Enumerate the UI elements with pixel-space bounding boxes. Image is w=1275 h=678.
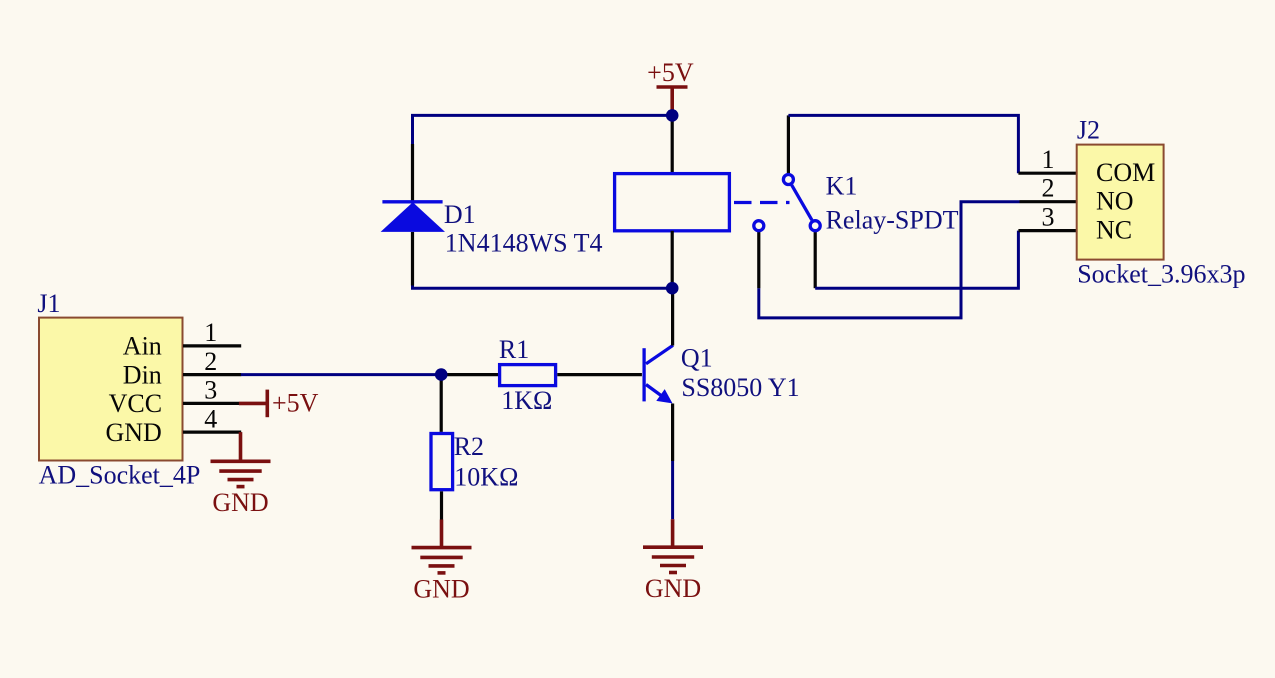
svg-text:AD_Socket_4P: AD_Socket_4P — [39, 461, 201, 490]
svg-text:COM: COM — [1096, 158, 1155, 187]
svg-text:Din: Din — [123, 360, 162, 389]
svg-text:GND: GND — [212, 488, 268, 517]
svg-text:R2: R2 — [454, 432, 484, 461]
svg-text:J1: J1 — [37, 289, 60, 318]
svg-text:3: 3 — [1042, 202, 1055, 231]
svg-text:1: 1 — [1042, 145, 1055, 174]
svg-text:GND: GND — [105, 418, 161, 447]
svg-text:1N4148WS T4: 1N4148WS T4 — [445, 228, 603, 257]
svg-text:SS8050 Y1: SS8050 Y1 — [681, 373, 799, 402]
svg-text:2: 2 — [1042, 174, 1055, 203]
svg-text:R1: R1 — [499, 335, 529, 364]
svg-text:Ain: Ain — [123, 332, 162, 361]
svg-text:3: 3 — [204, 376, 217, 405]
svg-text:NO: NO — [1096, 187, 1134, 216]
svg-text:10KΩ: 10KΩ — [454, 463, 518, 492]
svg-text:GND: GND — [645, 574, 701, 603]
svg-text:2: 2 — [204, 347, 217, 376]
svg-text:Q1: Q1 — [681, 343, 713, 372]
svg-text:D1: D1 — [444, 200, 476, 229]
svg-text:VCC: VCC — [109, 389, 162, 418]
svg-text:+5V: +5V — [272, 389, 319, 418]
svg-text:NC: NC — [1096, 216, 1132, 245]
svg-text:J2: J2 — [1077, 115, 1100, 144]
svg-text:+5V: +5V — [647, 58, 694, 87]
svg-text:Socket_3.96x3p: Socket_3.96x3p — [1077, 259, 1245, 288]
svg-text:Relay-SPDT: Relay-SPDT — [826, 206, 959, 235]
svg-text:1KΩ: 1KΩ — [501, 386, 552, 415]
svg-text:GND: GND — [413, 574, 469, 603]
svg-text:K1: K1 — [826, 172, 858, 201]
svg-text:1: 1 — [204, 318, 217, 347]
svg-text:4: 4 — [204, 404, 217, 433]
